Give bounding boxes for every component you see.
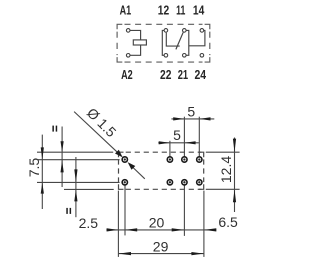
ext line col3 (top) [183,117,185,157]
hole 24 [197,180,202,185]
arrow equal-top upper [61,141,64,152]
svg-text:6.5: 6.5 [218,214,238,230]
terminal bar pin 12-22 [162,30,164,55]
svg-text:12.4: 12.4 [218,156,234,183]
arrow equal-bottom upper [74,169,77,182]
leader line diameter 1.5 [74,112,118,154]
arrowheads [41,117,236,255]
extension + dimension thin lines [37,112,240,257]
hole 14 [197,157,202,162]
ext line col2 (top) [169,141,171,157]
svg-text:A1: A1 [120,3,132,17]
arrow 7.5 bottom [41,183,44,194]
ext line rect-bottom (left) [64,188,114,190]
svg-text:21: 21 [178,68,188,82]
svg-text:24: 24 [195,68,207,82]
arrow leader to hole [115,150,123,158]
equality mark bottom (II) [66,208,71,214]
NC contact wire from pin 12 [166,33,179,47]
pin A1 circle [126,29,130,33]
svg-text:22: 22 [160,68,171,82]
dim line equal-mark top [61,127,63,188]
hole 12 [167,157,172,162]
leader tail diameter 1.5 [133,168,145,179]
arrow 7.5 top [41,147,44,159]
hole 22 [167,180,172,185]
svg-text:5: 5 [173,127,181,143]
arrow 20 right [172,228,185,231]
arrow 12.4 top [233,139,236,153]
ext line rect-top (left) [37,151,113,153]
svg-text:5: 5 [187,104,195,120]
dim line 29 [118,253,203,255]
hole 11 [182,157,187,162]
pin 24 circle [200,54,204,58]
NO contact wire from pin 14 [189,30,205,45]
dim line 5 upper [171,118,214,120]
arrow equal-bottom lower [74,190,77,202]
arrow 29 left [119,252,131,255]
dim line equal-mark bottom [75,157,77,217]
ext line rect-right-top (for 12.4) [206,151,240,153]
arrow 5 lower right [185,141,196,144]
ext line col3 (bottom) [183,185,185,236]
hole A2 (coil) [122,180,127,185]
svg-text:14: 14 [193,3,204,17]
arrow 20 left [125,228,137,231]
equality mark top (II) [52,126,57,132]
coil wire A1 [130,30,140,40]
arrow 5 lower left [159,141,170,144]
coil wire A2 [130,45,140,55]
pin 14 circle [200,29,204,33]
arrow 12.4 bottom [233,189,236,202]
hole 21 [182,180,187,185]
movable contact arm from pin 11 [176,32,183,49]
pin A2 circle [126,54,130,58]
ext line col4 (top) [198,117,200,157]
dim line 2.5/20/6.5 [106,229,216,231]
arrow 2.5 outside [107,228,119,231]
dashed relay enclosure box [117,24,210,62]
ext line hole row1 (left) [38,159,120,161]
arrow 29 right [191,252,203,255]
svg-text:7.5: 7.5 [26,158,42,178]
arrow equal-top lower [61,160,64,173]
svg-text:A2: A2 [121,68,133,82]
svg-text:29: 29 [153,238,169,254]
pin 11 circle [183,29,187,33]
svg-text:20: 20 [149,214,165,230]
dim line 12.4 [234,138,236,213]
svg-text:2.5: 2.5 [79,215,99,231]
arrow 5 upper left [173,117,184,120]
svg-text:12: 12 [158,3,169,17]
arrow leader from hole [128,162,136,170]
pin 12 circle [164,29,168,33]
dim line 5 lower [158,142,199,144]
dim line 7.5 [41,135,43,209]
arrow 6.5 outside [204,228,216,231]
ext line coil hole col (bottom) [124,185,126,235]
svg-text:11: 11 [176,3,185,17]
relay body outline (dashed) [119,152,204,189]
coil (rectangle) [133,40,146,45]
pin 21 circle [183,54,187,58]
ext line hole row2 (left, to hole) [37,181,120,183]
ext line rect-right-bottom (for 12.4) [206,188,240,190]
terminal bar pin 11-21 [186,30,188,55]
ext line rect-left (bottom) [117,191,119,257]
ext line rect-right (bottom) [203,191,205,257]
pin 22 circle [164,54,168,58]
arrow 5 upper right [199,117,210,120]
hole A1 (coil) [122,157,127,162]
